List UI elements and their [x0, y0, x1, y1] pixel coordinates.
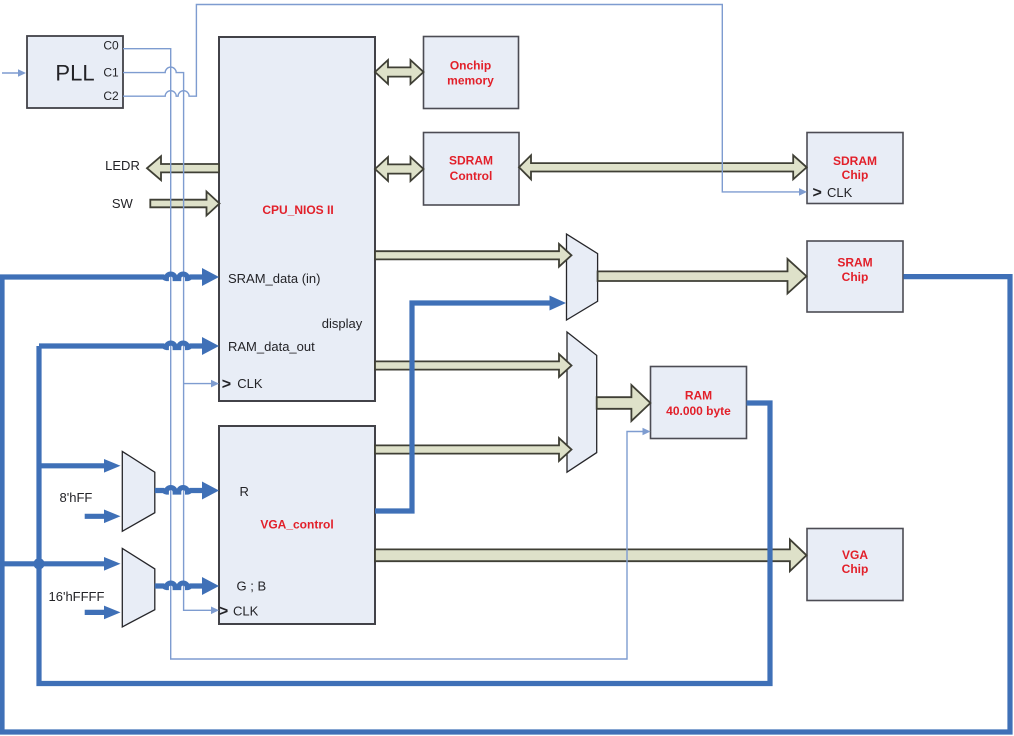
- svg-text:CPU_NIOS II: CPU_NIOS II: [262, 203, 333, 217]
- svg-text:Chip: Chip: [842, 168, 869, 182]
- svg-text:RAM_data_out: RAM_data_out: [228, 339, 315, 354]
- svg-text:SW: SW: [112, 196, 134, 211]
- svg-text:Control: Control: [450, 169, 493, 183]
- svg-text:40.000 byte: 40.000 byte: [666, 404, 731, 418]
- svg-text:C2: C2: [103, 89, 119, 103]
- svg-text:Chip: Chip: [842, 270, 869, 284]
- svg-text:SDRAM: SDRAM: [449, 154, 493, 168]
- svg-text:8'hFF: 8'hFF: [60, 490, 93, 505]
- svg-text:SDRAM: SDRAM: [833, 154, 877, 168]
- svg-text:C1: C1: [103, 66, 119, 80]
- svg-text:16'hFFFF: 16'hFFFF: [49, 589, 105, 604]
- svg-text:Onchip: Onchip: [450, 59, 491, 73]
- svg-text:VGA_control: VGA_control: [260, 518, 333, 532]
- svg-text:G ; B: G ; B: [237, 579, 267, 594]
- svg-text:Chip: Chip: [842, 562, 869, 576]
- svg-text:display: display: [322, 316, 363, 331]
- svg-text:LEDR: LEDR: [105, 158, 140, 173]
- svg-text:SRAM_data (in): SRAM_data (in): [228, 271, 320, 286]
- svg-text:>: >: [219, 603, 228, 620]
- svg-text:>: >: [813, 185, 822, 202]
- svg-text:C0: C0: [103, 39, 119, 53]
- svg-text:CLK: CLK: [827, 185, 853, 200]
- svg-text:CLK: CLK: [233, 604, 259, 619]
- svg-text:CLK: CLK: [237, 376, 263, 391]
- svg-text:memory: memory: [447, 74, 494, 88]
- svg-text:SRAM: SRAM: [837, 256, 872, 270]
- svg-text:PLL: PLL: [55, 61, 94, 86]
- svg-text:R: R: [240, 484, 249, 499]
- svg-text:RAM: RAM: [685, 389, 712, 403]
- svg-text:>: >: [222, 376, 231, 393]
- svg-text:VGA: VGA: [842, 548, 868, 562]
